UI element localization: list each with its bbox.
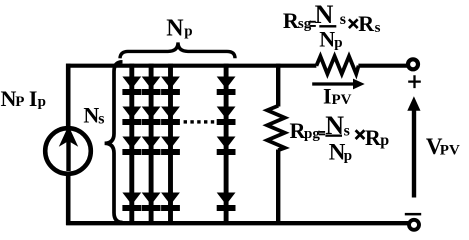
brace Ns (vertical, left of diode matrix) xyxy=(105,62,123,223)
resistor Rsg (series) zigzag xyxy=(316,56,358,74)
wire top bus left segment xyxy=(66,64,316,68)
wire Rpg branch lower xyxy=(276,150,280,226)
brace Np (horizontal, over diode columns) xyxy=(120,42,235,58)
svg-text:p: p xyxy=(344,148,352,164)
diode column 2 wire xyxy=(149,64,154,223)
terminal negative output node xyxy=(409,220,419,230)
wire left branch lower xyxy=(66,174,71,226)
wire bottom bus xyxy=(66,221,408,225)
svg-text:R: R xyxy=(358,11,375,36)
diode column 1 wire xyxy=(129,64,134,223)
current source arrow shaft xyxy=(66,140,70,172)
resistor Rpg (shunt) zigzag xyxy=(267,106,285,150)
svg-text:N: N xyxy=(315,0,334,29)
svg-text:s: s xyxy=(98,110,104,127)
svg-text:N: N xyxy=(83,103,99,128)
arrow VPV xyxy=(407,96,420,197)
diode D44 xyxy=(217,193,236,212)
svg-text:N: N xyxy=(1,86,17,111)
diode column 4 wire xyxy=(224,64,229,223)
svg-text:s: s xyxy=(340,11,346,28)
diode D22 xyxy=(142,107,161,126)
svg-text:p: p xyxy=(334,35,342,51)
diode D31 xyxy=(161,77,180,96)
diode D41 xyxy=(217,77,236,96)
diode D11 xyxy=(122,77,141,96)
wire Rpg branch upper xyxy=(276,64,280,107)
svg-text:s: s xyxy=(344,122,350,139)
diode D33 xyxy=(161,137,180,156)
svg-text:p: p xyxy=(380,132,389,149)
svg-text:sg: sg xyxy=(298,16,312,32)
diode D42 xyxy=(217,107,236,126)
plus sign xyxy=(408,75,421,88)
svg-text:PV: PV xyxy=(440,142,460,158)
diode D24 xyxy=(142,193,161,212)
label Ns xyxy=(83,103,104,128)
wire top bus right segment xyxy=(358,64,407,68)
diode D32 xyxy=(161,107,180,126)
label NP Ip xyxy=(1,86,46,111)
svg-text:p: p xyxy=(38,94,46,110)
arrow IPV xyxy=(312,79,365,90)
current source arrow head xyxy=(59,126,78,147)
diode D23 xyxy=(142,137,161,156)
diode D34 xyxy=(161,193,180,212)
svg-text:I: I xyxy=(323,84,332,109)
svg-text:P: P xyxy=(15,94,24,110)
svg-text:p: p xyxy=(184,24,192,40)
label Rsg formula xyxy=(283,0,381,51)
diode D21 xyxy=(142,77,161,96)
svg-text:N: N xyxy=(166,15,184,41)
diode D12 xyxy=(122,107,141,126)
diode column 3 wire xyxy=(168,64,173,223)
ellipsis dots (continuation of columns) xyxy=(184,120,215,123)
label Np xyxy=(166,15,192,41)
label VPV xyxy=(426,134,460,159)
diode D13 xyxy=(122,137,141,156)
minus sign xyxy=(405,213,421,216)
diode D14 xyxy=(122,193,141,212)
current source U1 circle xyxy=(45,128,91,174)
diode D43 xyxy=(217,137,236,156)
wire left branch upper xyxy=(66,64,71,129)
label IPV xyxy=(323,84,352,109)
svg-text:s: s xyxy=(375,20,381,36)
svg-text:pg: pg xyxy=(304,126,320,142)
svg-text:I: I xyxy=(29,86,38,111)
terminal positive output node xyxy=(408,59,418,69)
svg-text:N: N xyxy=(319,27,335,52)
label Rpg formula xyxy=(290,111,390,165)
svg-text:PV: PV xyxy=(332,92,352,108)
